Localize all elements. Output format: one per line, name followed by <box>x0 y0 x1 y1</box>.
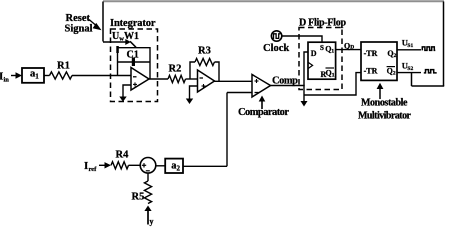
svg-text:UwW1: UwW1 <box>112 31 139 43</box>
svg-text:QD: QD <box>344 41 354 50</box>
svg-text:Clock: Clock <box>263 43 289 54</box>
svg-text:-TR: -TR <box>364 67 378 76</box>
svg-text:S1: S1 <box>407 43 413 49</box>
svg-text:D: D <box>311 49 317 58</box>
svg-text:in: in <box>4 77 10 84</box>
svg-text:Signal: Signal <box>65 24 93 35</box>
svg-text:a1: a1 <box>30 69 39 81</box>
svg-text:Comparator: Comparator <box>238 107 289 118</box>
svg-text:Monostable: Monostable <box>361 98 408 109</box>
svg-text:S2: S2 <box>407 66 413 72</box>
svg-text:Reset: Reset <box>66 13 91 24</box>
svg-text:ref: ref <box>89 166 98 173</box>
svg-text:y: y <box>150 217 154 226</box>
svg-text:a2: a2 <box>171 161 180 173</box>
svg-text:S: S <box>320 44 324 52</box>
svg-text:-TR: -TR <box>364 49 378 58</box>
svg-text:R2: R2 <box>169 64 182 75</box>
svg-text:C1: C1 <box>127 50 139 61</box>
svg-text:R5: R5 <box>132 192 145 203</box>
svg-text:Integrator: Integrator <box>110 18 156 29</box>
svg-text:R1: R1 <box>57 61 70 72</box>
svg-text:Multivibrator: Multivibrator <box>358 111 412 122</box>
svg-text:R3: R3 <box>198 46 211 57</box>
svg-text:R4: R4 <box>116 150 130 161</box>
